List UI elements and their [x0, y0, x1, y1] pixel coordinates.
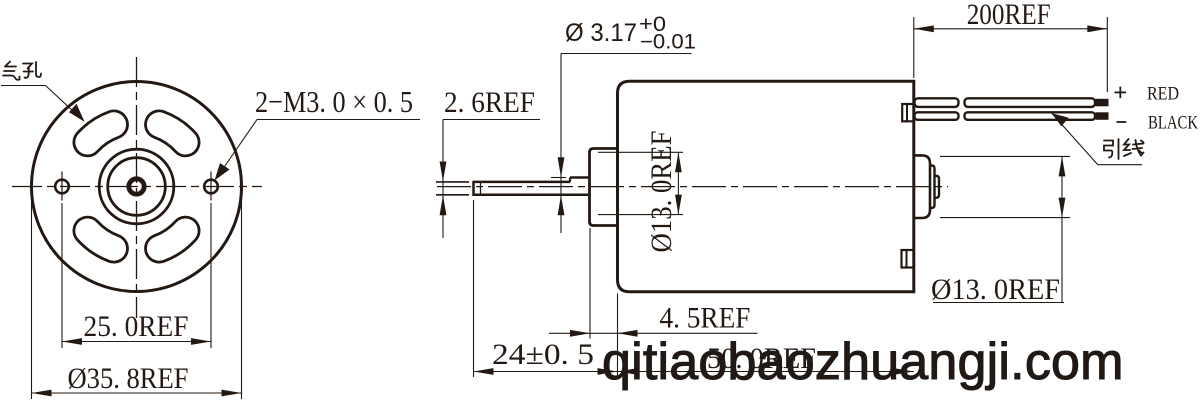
svg-text:4. 5REF: 4. 5REF	[660, 302, 751, 335]
svg-text:Ø13. 0REF: Ø13. 0REF	[931, 273, 1060, 306]
svg-text:RED: RED	[1147, 84, 1179, 105]
svg-text:qitiaobaozhuangji.com: qitiaobaozhuangji.com	[602, 333, 1124, 391]
svg-text:Ø13. 0REF: Ø13. 0REF	[645, 131, 678, 253]
svg-text:2−M3. 0 × 0. 5: 2−M3. 0 × 0. 5	[255, 84, 413, 119]
svg-text:Ø 3.17: Ø 3.17	[565, 19, 637, 47]
svg-text:−0.01: −0.01	[640, 31, 696, 54]
svg-text:24±0. 5: 24±0. 5	[492, 338, 594, 371]
svg-text:25. 0REF: 25. 0REF	[84, 310, 189, 343]
svg-text:2. 6REF: 2. 6REF	[444, 86, 535, 119]
svg-text:200REF: 200REF	[967, 0, 1051, 31]
svg-text:BLACK: BLACK	[1148, 112, 1198, 133]
svg-text:Ø35. 8REF: Ø35. 8REF	[68, 362, 189, 395]
